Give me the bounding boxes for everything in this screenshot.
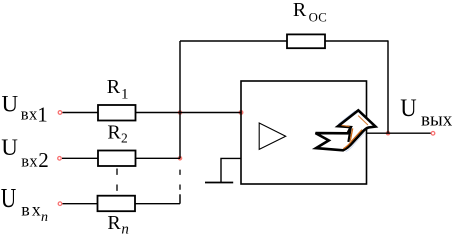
orange fringe right of fold [350,128,352,140]
svg-text:R: R [107,76,121,98]
svg-text:1: 1 [121,86,129,102]
resistor R1 [98,105,136,121]
wire top feedback right segment [325,40,388,42]
wire noninverting input [221,158,241,182]
svg-text:вых: вых [421,109,453,130]
wire input n right [136,203,181,205]
wire feedback right vertical [387,40,389,133]
wire output [367,132,432,134]
wire top feedback left segment [180,40,287,42]
svg-text:1: 1 [37,102,48,126]
junction node dot row2 [178,156,183,161]
resistor R2 [98,151,136,167]
arrow silhouette [316,110,376,150]
svg-text:n: n [121,221,128,237]
svg-text:R: R [107,212,121,234]
blue fringe outside bend [346,132,365,151]
fold line [348,127,350,142]
svg-text:вх: вх [21,199,43,219]
orange fringe inside head right edge [358,116,368,125]
orange fringe under head left wing [342,125,350,128]
wire input 2 right [136,157,181,159]
svg-text:вх: вх [21,151,38,170]
svg-text:U: U [1,183,16,213]
terminal output [431,132,435,136]
wire input 1 left [63,112,99,114]
svg-text:n: n [41,210,48,225]
resistor Rn [98,196,136,212]
svg-text:ОС: ОС [309,11,327,25]
svg-text:R: R [293,0,307,21]
amplifier triangle [259,123,286,149]
wire summing bus vertical [179,41,181,158]
terminal input n [58,202,62,206]
terminal input 1 [58,111,62,115]
junction node dot row1 [178,110,183,115]
svg-text:2: 2 [38,148,49,172]
svg-text:U: U [2,91,19,116]
svg-text:U: U [400,95,416,122]
svg-text:2: 2 [121,131,128,146]
wire input 2 left [62,157,98,159]
ground bar [205,182,233,184]
resistor Roc [287,34,325,48]
dashed line between R2 and Rn [116,169,118,192]
orange fringe above diagonal [343,130,362,149]
svg-text:вх: вх [21,105,38,124]
wire input 1 right to box [136,112,242,114]
svg-text:U: U [1,135,18,160]
bent arrow symbol [316,110,376,151]
wire input n vertical tick [179,194,181,203]
terminal input 2 [58,157,62,161]
blue fringe outside head left edge [338,111,355,124]
amplifier box U1 [241,81,367,184]
junction node dot at box input [239,110,244,115]
junction node dot at output [386,131,391,136]
wire input n left [63,203,99,205]
svg-text:R: R [107,121,121,143]
dashed line on bus column [179,170,181,190]
